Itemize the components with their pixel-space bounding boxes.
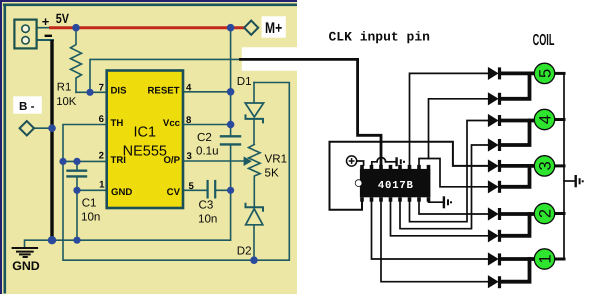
svg-text:R1: R1 <box>57 82 71 94</box>
svg-text:D1: D1 <box>237 75 252 88</box>
svg-text:COIL: COIL <box>533 32 555 49</box>
svg-text:CLK input pin: CLK input pin <box>329 29 431 44</box>
svg-text:2: 2 <box>99 151 104 162</box>
svg-text:7: 7 <box>99 83 104 94</box>
svg-text:DIS: DIS <box>111 86 128 97</box>
svg-text:5: 5 <box>536 69 554 78</box>
svg-text:4: 4 <box>536 115 554 124</box>
svg-text:5V: 5V <box>56 11 69 26</box>
svg-text:GND: GND <box>12 259 40 273</box>
svg-text:D2: D2 <box>237 245 252 258</box>
svg-text:GND: GND <box>111 187 132 198</box>
svg-text:C3: C3 <box>199 198 214 211</box>
svg-text:1: 1 <box>99 180 105 191</box>
svg-text:IC1: IC1 <box>134 125 157 141</box>
svg-text:B -: B - <box>19 100 35 113</box>
svg-text:4: 4 <box>186 83 192 94</box>
svg-text:3: 3 <box>187 151 192 162</box>
svg-text:M+: M+ <box>265 20 282 37</box>
svg-text:10K: 10K <box>56 96 77 108</box>
svg-text:10n: 10n <box>198 212 217 225</box>
svg-text:Vcc: Vcc <box>163 118 181 129</box>
svg-text:6: 6 <box>99 114 104 125</box>
svg-text:10n: 10n <box>81 211 100 224</box>
svg-text:TH: TH <box>111 118 124 129</box>
svg-text:C1: C1 <box>82 196 97 209</box>
svg-text:3: 3 <box>536 161 554 170</box>
svg-text:8: 8 <box>186 115 192 126</box>
svg-text:4017B: 4017B <box>378 180 414 192</box>
svg-text:5K: 5K <box>265 166 279 179</box>
svg-text:2: 2 <box>536 209 554 218</box>
svg-text:VR1: VR1 <box>265 152 288 165</box>
svg-text:RESET: RESET <box>148 86 180 97</box>
svg-text:C2: C2 <box>197 131 212 144</box>
svg-text:+: + <box>42 14 50 29</box>
svg-text:0.1u: 0.1u <box>196 145 219 158</box>
svg-text:CV: CV <box>167 187 181 198</box>
svg-text:1: 1 <box>536 254 554 263</box>
svg-text:5: 5 <box>189 181 195 192</box>
svg-text:NE555: NE555 <box>123 143 167 159</box>
